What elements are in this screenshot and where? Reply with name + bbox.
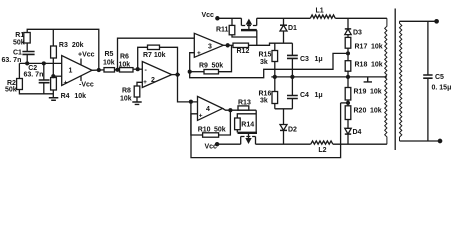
capacitor C5	[423, 75, 432, 78]
resistor R12	[233, 43, 249, 47]
wire: C5 branch top	[427, 21, 429, 75]
svg-text:50k: 50k	[5, 87, 17, 94]
svg-text:-Vcc: -Vcc	[79, 81, 94, 88]
svg-text:1μ: 1μ	[315, 92, 323, 99]
wire: bottom tee R16/C4	[275, 109, 293, 125]
svg-text:R15: R15	[259, 52, 272, 59]
resistor R4	[51, 78, 57, 91]
transistor Q1	[241, 18, 257, 30]
svg-text:63. 7n: 63. 7n	[2, 57, 22, 64]
wire: plus input line of op-amp1	[53, 75, 61, 77]
capacitor C3	[287, 43, 298, 77]
ground: below R4	[49, 98, 59, 100]
svg-text:R5: R5	[105, 51, 114, 58]
wire: op-amp1 output top loop	[27, 29, 99, 68]
wire: R19/R20 tap to outer loop	[341, 102, 348, 104]
svg-text:63. 7n: 63. 7n	[24, 71, 44, 78]
diode D1	[280, 18, 287, 43]
wire: R10 loop right up to output	[219, 110, 231, 135]
svg-text:R1: R1	[15, 32, 24, 39]
wire: secondary top lead	[400, 20, 437, 22]
wire: bottom rail	[217, 143, 387, 145]
svg-text:D1: D1	[288, 25, 297, 32]
svg-text:R19: R19	[354, 89, 367, 96]
diode D3	[345, 18, 351, 37]
resistor R13	[238, 106, 249, 110]
wire: R9 loop left	[190, 71, 204, 73]
wire: R13 right to Q2 gate	[255, 110, 257, 133]
resistor R3	[51, 46, 57, 58]
svg-text:R10: R10	[198, 126, 211, 133]
svg-text:D3: D3	[353, 30, 362, 37]
transistor Q2	[238, 133, 258, 144]
node: R5/R6 junction	[116, 68, 119, 71]
svg-text:Vcc: Vcc	[205, 144, 218, 151]
svg-text:R9: R9	[199, 63, 208, 70]
svg-text:R4: R4	[61, 93, 70, 100]
node: Vcc bottom dot	[216, 143, 219, 146]
transformer core	[394, 9, 396, 151]
node: C3/C4 junction	[291, 75, 294, 78]
wire: gate vertical Q1	[256, 30, 258, 45]
svg-text:3k: 3k	[260, 98, 268, 105]
resistor R7	[148, 45, 160, 49]
wire: R9 loop right up to output	[219, 45, 232, 71]
diode D2	[280, 125, 287, 145]
svg-text:20k: 20k	[72, 42, 84, 49]
svg-text:10k: 10k	[103, 60, 115, 67]
wire: R7 feedback loop left	[138, 47, 148, 69]
wire: R14 bottom to gate bar	[236, 130, 238, 133]
wire: R19 to R20	[347, 100, 349, 106]
node: R3/R4 junction to plus input	[52, 75, 55, 78]
node: C2 top junction	[42, 62, 45, 65]
svg-text:1: 1	[69, 68, 73, 75]
resistor R2	[17, 79, 23, 90]
resistor R15	[272, 43, 278, 77]
svg-text:10k: 10k	[370, 108, 382, 115]
svg-text:10k: 10k	[120, 96, 132, 103]
capacitor C1	[22, 52, 34, 55]
svg-text:D4: D4	[353, 129, 362, 136]
wire: R2 branch	[18, 63, 20, 78]
pin: +Vcc tick op-amp1	[80, 59, 82, 65]
wire: op-amp2 output	[172, 74, 180, 76]
wire: R4 to ground	[52, 90, 54, 98]
pin: -Vcc tick op-amp1	[80, 76, 82, 81]
svg-text:D2: D2	[288, 127, 297, 134]
svg-text:R8: R8	[122, 88, 131, 95]
svg-text:R16: R16	[259, 91, 272, 98]
wire: op-amp4 plus input outer loop	[191, 103, 341, 158]
ground: middle rail	[364, 77, 372, 82]
svg-text:1μ: 1μ	[315, 56, 323, 63]
resistor R16	[272, 77, 278, 109]
capacitor C4	[287, 77, 298, 109]
op-amp U2	[142, 62, 171, 88]
wire: op-amp3 plus input	[190, 53, 348, 78]
svg-text:R17: R17	[355, 44, 368, 51]
resistor R5	[104, 68, 115, 72]
wire: R10 loop	[191, 102, 203, 135]
resistor R6	[120, 68, 134, 72]
wire: C1 to minus line	[26, 54, 28, 63]
svg-text:10k: 10k	[371, 44, 383, 51]
wire: C2 bottom lead	[43, 83, 45, 94]
svg-text:R6: R6	[120, 54, 129, 61]
wire: R5 to R6	[115, 69, 120, 71]
svg-text:10k: 10k	[74, 93, 86, 100]
node: R18/R19 rail junction	[347, 75, 350, 78]
svg-text:+: +	[197, 50, 201, 57]
resistor R8	[134, 86, 140, 97]
wire: C5 branch bottom	[427, 78, 429, 141]
svg-text:C4: C4	[300, 92, 309, 99]
wire: R11 top to Vcc rail	[231, 18, 233, 25]
svg-text:10k: 10k	[119, 62, 131, 69]
inductor L1	[310, 15, 335, 18]
resistor R18	[345, 61, 351, 71]
svg-text:50k: 50k	[212, 63, 224, 70]
wire: R7 feedback loop right	[160, 47, 178, 74]
wire: op-amp2 output down to op-amp4 minus	[178, 75, 198, 102]
svg-text:R18: R18	[355, 62, 368, 69]
wire: C2 top lead	[43, 63, 45, 79]
resistor R20	[345, 106, 351, 120]
resistor R1	[24, 33, 30, 44]
op-amp U3	[194, 33, 223, 57]
ground: below R8	[132, 102, 141, 104]
wire: op-amp3 output	[223, 44, 233, 46]
svg-text:R12: R12	[237, 48, 250, 55]
op-amp U1	[62, 56, 92, 86]
wire: R18 to ground rail	[347, 71, 349, 87]
resistor R11	[229, 25, 235, 34]
wire: R1 to C1	[26, 43, 28, 51]
wire: R17 to R18	[347, 48, 349, 61]
svg-text:2: 2	[151, 77, 155, 84]
node: secondary top terminal	[435, 20, 438, 23]
svg-text:L2: L2	[318, 147, 326, 154]
svg-text:3: 3	[208, 44, 212, 51]
svg-text:C1: C1	[13, 50, 22, 57]
svg-text:4: 4	[206, 106, 210, 113]
transformer secondary winding	[400, 21, 402, 141]
wire: R11 bottom wire to gate	[232, 35, 257, 37]
svg-text:50k: 50k	[214, 126, 226, 133]
svg-text:+: +	[143, 79, 147, 86]
svg-text:+: +	[199, 113, 203, 120]
resistor R17	[345, 37, 351, 48]
node: op-amp2 minus node	[136, 68, 139, 71]
svg-text:3k: 3k	[260, 59, 268, 66]
svg-text:R20: R20	[354, 108, 367, 115]
svg-text:C5: C5	[435, 74, 444, 81]
transformer primary winding	[385, 18, 387, 144]
wire: R8 to ground	[136, 97, 138, 102]
op-amp U4	[198, 96, 223, 120]
wire: R12 to gate node and filter tee	[249, 43, 293, 45]
wire: ground rail middle	[271, 76, 387, 78]
svg-text:R14: R14	[241, 121, 254, 128]
svg-text:10k: 10k	[370, 89, 382, 96]
resistor R9	[204, 70, 219, 74]
node: R17/R18 junction	[347, 52, 350, 55]
svg-text:10k: 10k	[371, 62, 383, 69]
wire: R8 branch plus input op-amp2	[137, 82, 142, 86]
node: R19/R20 junction	[347, 102, 350, 105]
svg-text:50k: 50k	[13, 39, 25, 46]
capacitor C2	[39, 80, 50, 83]
node: Vcc top dot	[216, 17, 219, 20]
inductor L2	[311, 141, 333, 144]
node: op-amp4 minus node	[190, 100, 193, 103]
node: op-amp2 output junction	[176, 73, 179, 76]
node: op-amp3 output junction	[226, 44, 229, 47]
wire: top Vcc rail	[217, 17, 387, 19]
wire: junction up to op-amp3 minus input	[118, 38, 195, 70]
svg-text:R7 10k: R7 10k	[143, 52, 166, 59]
node: C1 junction	[26, 62, 29, 65]
svg-text:R13: R13	[238, 100, 251, 107]
wire: op-amp1 output	[92, 69, 104, 71]
wire: minus input line of op-amp1	[19, 62, 61, 64]
wire: R3-R4 column	[52, 58, 54, 78]
node: R15/R16 junction	[273, 75, 276, 78]
node: op-amp4 output junction	[229, 109, 232, 112]
diode D4	[345, 120, 351, 145]
wire: R6 to op-amp2 minus	[133, 68, 142, 70]
svg-text:Vcc: Vcc	[202, 12, 215, 19]
svg-text:0. 15μ: 0. 15μ	[432, 85, 452, 92]
resistor R14	[235, 118, 241, 130]
wire: op-amp4 output	[223, 108, 257, 110]
svg-text:R11: R11	[216, 27, 229, 34]
wire: branch to R3	[52, 29, 54, 46]
wire: R2 bottom to ground rail	[19, 90, 53, 94]
node: secondary bottom terminal	[438, 139, 441, 142]
svg-text:C3: C3	[300, 56, 309, 63]
svg-text:R3: R3	[59, 42, 68, 49]
node: R9 tap on plus column	[188, 70, 191, 73]
node: op-amp1 output junction	[97, 69, 100, 72]
svg-text:+: +	[64, 80, 68, 87]
svg-text:+Vcc: +Vcc	[78, 52, 95, 59]
svg-text:L1: L1	[316, 8, 324, 15]
wire: tee to R14	[237, 114, 256, 118]
wire: secondary bottom lead	[400, 140, 441, 142]
resistor R19	[345, 88, 351, 101]
resistor R10	[203, 133, 219, 137]
